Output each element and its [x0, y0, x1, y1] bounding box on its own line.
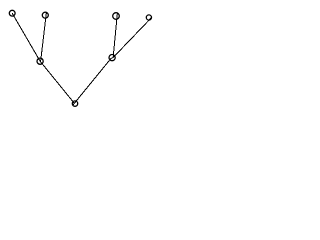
node N1 (top-left leaf) — [9, 10, 15, 16]
wire N1-M1 — [12, 13, 40, 61]
node N2 (second top leaf) — [42, 12, 48, 18]
node M1 (mid-left junction) — [37, 58, 43, 64]
node M2 (mid-right junction) — [109, 55, 115, 61]
node N4 (top-right leaf) — [146, 15, 151, 20]
wire N2-M1 — [41, 13, 47, 62]
node R (bottom root) — [72, 101, 77, 106]
wire M2-R — [73, 58, 112, 106]
node N3 (third top leaf) — [113, 13, 120, 20]
wire N3-M2 — [113, 14, 117, 58]
wire M1-R — [40, 61, 74, 103]
wire N4-M2 — [113, 18, 152, 58]
